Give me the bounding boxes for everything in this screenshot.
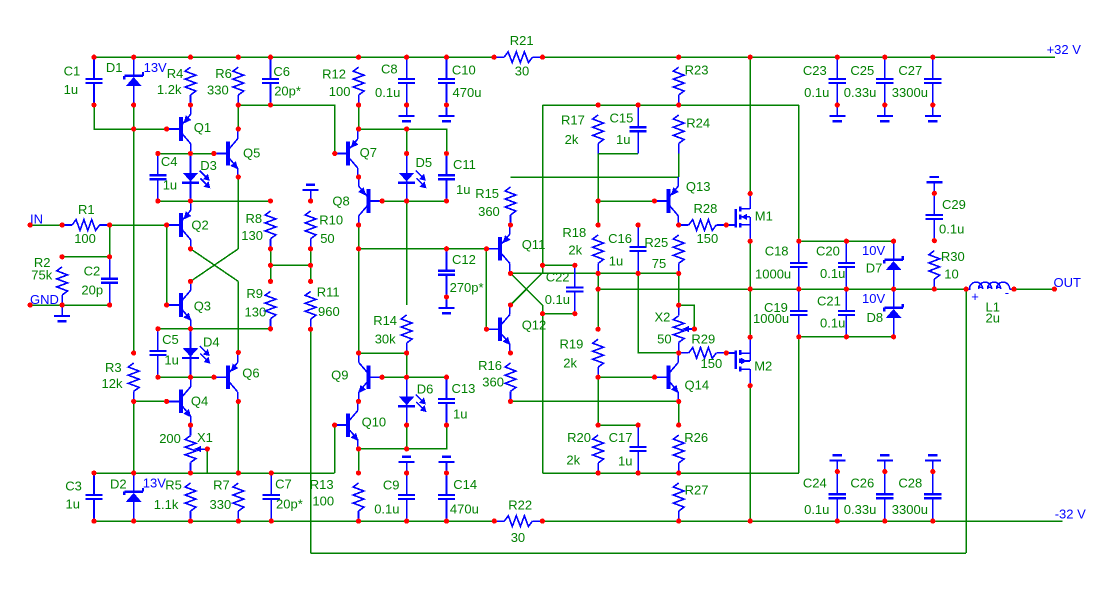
transistor Q12 [486, 305, 546, 353]
junction at 167,129 [164, 126, 169, 131]
svg-text:1u: 1u [164, 353, 178, 368]
resistor R20 [566, 430, 603, 473]
wire Q14e to R26 [678, 401, 680, 425]
wire R3 row to D2 [133, 401, 135, 473]
svg-text:C22: C22 [546, 270, 570, 285]
wire R8 R9 junction [270, 249, 272, 282]
svg-text:C14: C14 [453, 477, 477, 492]
wire M2 drain to -32V [749, 386, 751, 521]
wire row 249 to Q11 base [359, 248, 487, 250]
junction at 190,521 [188, 519, 193, 524]
junction at 679,425 [676, 423, 681, 428]
junction at 510,225 [508, 222, 513, 227]
capacitor C14 [438, 473, 479, 521]
svg-text:C26: C26 [850, 476, 874, 491]
junction at 270,249 [268, 246, 273, 251]
junction at 167,401 [164, 399, 169, 404]
zener diode D1 [106, 57, 167, 105]
resistor R15 [475, 186, 516, 225]
junction at 94,105 [91, 102, 96, 107]
resistor R16 [478, 358, 516, 402]
wire box right upper [798, 105, 800, 241]
svg-text:R25: R25 [644, 235, 668, 250]
svg-text:30: 30 [515, 63, 529, 78]
inductor L1 [966, 282, 1014, 325]
junction at 446,249 [444, 246, 449, 251]
svg-text:Q4: Q4 [191, 393, 208, 408]
svg-text:C5: C5 [162, 332, 179, 347]
port IN [30, 212, 43, 227]
svg-text:1.2k: 1.2k [157, 82, 182, 97]
wire D6 bottom drop [406, 425, 408, 449]
svg-text:D1: D1 [106, 60, 123, 75]
junction at 598,105 [596, 102, 601, 107]
svg-text:Q14: Q14 [685, 378, 710, 393]
junction at 598,201 [596, 198, 601, 203]
junction at 214,154 [211, 151, 216, 156]
ground below C23 [829, 105, 845, 121]
junction at 238,352 [236, 350, 241, 355]
svg-text:C23: C23 [803, 63, 827, 78]
wire Q8c down to Q9c [358, 225, 360, 353]
svg-text:D2: D2 [110, 477, 127, 492]
wire C22 bottom row [543, 313, 575, 315]
junction at 190,473 [188, 470, 193, 475]
resistor R29 [679, 331, 727, 371]
junction at 407,377 [404, 375, 409, 380]
svg-text:C9: C9 [383, 477, 400, 492]
wire Q6c to R7 [237, 401, 239, 473]
svg-text:Q5: Q5 [243, 145, 260, 160]
junction at 837,521 [835, 519, 840, 524]
svg-text:R12: R12 [322, 67, 346, 82]
capacitor C22 [545, 265, 584, 313]
svg-text:3300u: 3300u [892, 502, 928, 517]
capacitor C23 [803, 57, 846, 105]
resistor R5 [154, 477, 196, 521]
junction at 359,57 [356, 55, 361, 60]
junction at 271,473 [269, 470, 274, 475]
svg-text:2k: 2k [566, 453, 580, 468]
junction at 799,289 [796, 287, 801, 292]
ground above C9 [399, 457, 415, 473]
wire diagonal Q3c to Q5e [191, 249, 239, 282]
wire box left upper [542, 105, 544, 265]
junction at 382,377 [380, 375, 385, 380]
wire row 377 Q9b D6 C13 [382, 376, 446, 378]
junction at 679,473 [676, 470, 681, 475]
junction at 30,225 [28, 222, 33, 227]
svg-text:0.1u: 0.1u [374, 502, 399, 517]
LED diode D5 [398, 154, 432, 202]
junction at 1054,289 [1052, 287, 1057, 292]
junction at 359,177 [356, 174, 361, 179]
capacitor C4 [149, 154, 177, 202]
junction at 510,401 [508, 399, 513, 404]
wire feedback bottom row [311, 552, 967, 554]
svg-text:470u: 470u [450, 502, 479, 517]
wire R3 to Q4 base [134, 400, 167, 402]
junction at 575,314 [572, 311, 577, 316]
junction at 885,105 [882, 102, 887, 107]
wire R11 to feedback [310, 329, 312, 553]
svg-text:C25: C25 [850, 63, 874, 78]
svg-text:10: 10 [944, 267, 958, 282]
resistor R11 [305, 285, 340, 330]
wire row 201 to Q13 base [598, 200, 654, 202]
svg-text:D8: D8 [867, 310, 884, 325]
svg-text:270p*: 270p* [450, 280, 484, 295]
resistor R21 [494, 33, 542, 78]
junction at 190,57 [188, 55, 193, 60]
junction at 238,401 [236, 399, 241, 404]
junction at 446,105 [444, 102, 449, 107]
transistor Q14 [655, 353, 709, 401]
junction at 694,329 [692, 326, 697, 331]
junction at 359,105 [356, 102, 361, 107]
svg-text:C3: C3 [65, 479, 82, 494]
wire C6 row to Q7 base [238, 105, 334, 154]
capacitor C18 [755, 241, 807, 289]
svg-text:GND: GND [30, 292, 59, 307]
svg-text:R15: R15 [475, 186, 499, 201]
junction at 62,225 [60, 222, 65, 227]
junction at 885,521 [882, 519, 887, 524]
junction at 407,57 [404, 55, 409, 60]
junction at 486,329 [484, 327, 489, 332]
wire row 273 Q11c R18 C16 R25 [511, 272, 679, 274]
svg-text:1u: 1u [609, 253, 623, 268]
junction at 542,521 [540, 519, 545, 524]
wire NFB row 473 [94, 472, 335, 474]
junction at 62,305 [60, 302, 65, 307]
LED diode D4 [182, 329, 220, 377]
svg-text:Q9: Q9 [331, 368, 348, 383]
junction at 407,449 [404, 446, 409, 451]
junction at 94,473 [91, 470, 96, 475]
svg-text:50: 50 [657, 331, 671, 346]
wire Q5 emitter column [237, 177, 239, 249]
ground below C27 [925, 105, 941, 121]
wire floating top rail row 105 [543, 104, 799, 106]
junction at 238,177 [236, 174, 241, 179]
junction at 238,129 [236, 126, 241, 131]
capacitor C29 [926, 193, 966, 240]
junction at 598,273 [596, 271, 601, 276]
junction at 679,225 [676, 222, 681, 227]
junction at 190,329 [188, 326, 193, 331]
transistor Q6 [214, 353, 260, 401]
svg-text:Q2: Q2 [191, 218, 208, 233]
wire row 153 Q1c D3 Q5b [158, 153, 214, 155]
junction at 407,154 [404, 151, 409, 156]
svg-text:75k: 75k [31, 268, 52, 283]
svg-text:Q1: Q1 [194, 120, 211, 135]
svg-text:2u: 2u [986, 310, 1000, 325]
wire C16 tail to X2 bottom [638, 273, 679, 353]
svg-text:C21: C21 [817, 294, 841, 309]
wire M1 source to M2 source [749, 241, 751, 337]
junction at 238,57 [236, 55, 241, 60]
junction at 446,521 [444, 519, 449, 524]
trimmer X2 [655, 305, 696, 353]
junction at 270,57 [268, 55, 273, 60]
svg-text:R8: R8 [246, 211, 263, 226]
svg-text:10V: 10V [862, 243, 885, 258]
wire Q10e to R13 [358, 449, 360, 473]
junction at 750,337 [748, 335, 753, 340]
resistor R28 [679, 201, 727, 246]
capacitor C20 [816, 241, 855, 289]
junction at 311,201 [308, 198, 313, 203]
wire D5 top drop [406, 129, 408, 154]
junction at 837,472 [835, 469, 840, 474]
svg-text:R4: R4 [167, 66, 184, 81]
junction at 158,377 [155, 375, 160, 380]
junction at 726,225 [724, 222, 729, 227]
trimmer X1 [159, 425, 213, 473]
junction at 486,249 [484, 246, 489, 251]
svg-text:0.1u: 0.1u [820, 266, 845, 281]
svg-text:1u: 1u [618, 453, 632, 468]
transistor Q11 [486, 225, 545, 273]
resistor R27 [673, 483, 708, 521]
capacitor C16 [608, 225, 647, 273]
junction at 598,329 [596, 327, 601, 332]
junction at 62,257 [60, 254, 65, 259]
svg-text:C13: C13 [452, 381, 476, 396]
svg-text:330: 330 [210, 497, 232, 512]
junction at 799,337 [796, 334, 801, 339]
junction at 207,449 [205, 446, 210, 451]
wire row 201 C4 D3 R8 [158, 200, 271, 202]
svg-text:+: + [971, 289, 979, 304]
transistor Q1 [167, 105, 211, 153]
wire X2 wiper loop [679, 305, 695, 329]
wire row 177 R15 to Q13e [511, 176, 679, 178]
wire IN to R1 [30, 224, 62, 226]
capacitor C11 [438, 154, 476, 202]
net label -32 V [1055, 507, 1086, 522]
svg-text:R19: R19 [560, 337, 584, 352]
junction at 94,57 [91, 55, 96, 60]
junction at 679,273 [676, 271, 681, 276]
junction at 446,201 [444, 198, 449, 203]
junction at 726,353 [724, 350, 729, 355]
junction at 494,57 [492, 55, 497, 60]
svg-text:C11: C11 [453, 157, 476, 172]
transistor Q5 [214, 130, 260, 178]
junction at 638,105 [636, 102, 641, 107]
junction at 933,472 [930, 469, 935, 474]
svg-text:0.1u: 0.1u [820, 316, 845, 331]
svg-text:330: 330 [207, 83, 229, 98]
svg-text:130: 130 [245, 305, 267, 320]
wire row 449 [359, 425, 447, 449]
svg-text:20p*: 20p* [274, 83, 301, 98]
capacitor C15 [610, 105, 647, 154]
junction at 110,257 [107, 254, 112, 259]
svg-text:0.33u: 0.33u [844, 85, 877, 100]
transistor Q3 [167, 281, 211, 329]
junction at 510,353 [508, 350, 513, 355]
zener diode D2 [110, 473, 166, 521]
junction at 358,401 [356, 399, 361, 404]
svg-text:200: 200 [159, 431, 181, 446]
junction at 134,129 [131, 126, 136, 131]
svg-text:OUT: OUT [1054, 275, 1082, 290]
svg-text:X2: X2 [655, 309, 671, 324]
svg-text:Q6: Q6 [242, 365, 259, 380]
wire D5 to R14 [406, 201, 408, 305]
junction at 894,337 [891, 334, 896, 339]
ground below C12 [439, 297, 455, 313]
svg-text:R26: R26 [684, 430, 708, 445]
junction at 446,377 [444, 375, 449, 380]
svg-text:C12: C12 [452, 252, 476, 267]
svg-text:C24: C24 [803, 476, 827, 491]
junction at 542,314 [540, 311, 545, 316]
junction at 270,281 [268, 279, 273, 284]
junction at 679,401 [676, 399, 681, 404]
junction at 837,57 [835, 55, 840, 60]
junction at 311,329 [308, 327, 313, 332]
capacitor C19 [753, 289, 807, 337]
junction at 190,154 [188, 151, 193, 156]
wire row 425 R20 C17 [598, 424, 638, 426]
resistor R30 [929, 249, 965, 289]
resistor R3 [102, 360, 140, 402]
ground above C24 [829, 455, 845, 471]
svg-text:D3: D3 [200, 158, 217, 173]
junction at 190,105 [188, 102, 193, 107]
junction at 238,521 [236, 519, 241, 524]
wire D1 column down to R3 [133, 105, 135, 353]
svg-text:C2: C2 [84, 263, 101, 278]
svg-text:C15: C15 [610, 110, 634, 125]
svg-text:2k: 2k [563, 355, 577, 370]
svg-text:0.1u: 0.1u [804, 85, 829, 100]
svg-text:R29: R29 [691, 331, 715, 346]
svg-text:30: 30 [511, 530, 525, 545]
svg-text:1u: 1u [453, 407, 467, 422]
wire +32V rail left [94, 56, 494, 58]
svg-text:C27: C27 [898, 63, 922, 78]
svg-text:-: - [1005, 285, 1009, 300]
svg-text:R24: R24 [686, 115, 710, 130]
junction at 598,425 [596, 423, 601, 428]
junction at 190,377 [188, 375, 193, 380]
transistor Q4 [167, 377, 208, 425]
svg-text:R11: R11 [317, 285, 340, 300]
svg-text:20p*: 20p* [276, 497, 303, 512]
resistor R9 [245, 286, 276, 329]
svg-text:-32 V: -32 V [1055, 507, 1086, 522]
ground above C14 [439, 457, 455, 473]
wire box right lower [798, 337, 800, 473]
wire output row right of L1 [1014, 288, 1054, 290]
svg-text:M1: M1 [755, 208, 773, 223]
svg-text:75: 75 [652, 256, 666, 271]
capacitor C2 [81, 257, 118, 305]
junction at 407,353 [404, 350, 409, 355]
resistor R17 [561, 112, 604, 153]
junction at 679,305 [676, 303, 681, 308]
junction at 270,105 [268, 102, 273, 107]
junction at 750,386 [748, 383, 753, 388]
resistor R26 [673, 430, 708, 473]
resistor R2 [31, 255, 67, 305]
junction at 167,225 [164, 222, 169, 227]
svg-text:R13: R13 [310, 477, 334, 492]
wire row 377 C5 D4 Q6b [158, 376, 214, 378]
junction at 894,289 [891, 287, 896, 292]
net label +32 V [1047, 42, 1082, 57]
wire Q10 base drop [334, 425, 336, 473]
svg-text:0.33u: 0.33u [844, 502, 877, 517]
wire row 353 Q9c R14 [359, 352, 407, 354]
junction at 966,289 [964, 287, 969, 292]
junction at 134,353 [131, 350, 136, 355]
svg-text:1u: 1u [163, 178, 177, 193]
wire Q6 emitter column [237, 281, 239, 352]
wire C1 to Q1 base [94, 105, 167, 129]
junction at 94,521 [91, 519, 96, 524]
wire box left lower [542, 314, 544, 473]
transistor Q8 [332, 177, 382, 225]
junction at 238,105 [236, 102, 241, 107]
junction at 190,201 [188, 198, 193, 203]
junction at 510,273 [508, 271, 513, 276]
junction at 750,289 [748, 287, 753, 292]
junction at 110,305 [107, 302, 112, 307]
svg-text:C28: C28 [898, 476, 922, 491]
svg-text:0.1u: 0.1u [804, 502, 829, 517]
junction at 894,241 [891, 239, 896, 244]
junction at 311,281 [308, 279, 313, 284]
svg-text:3300u: 3300u [892, 85, 928, 100]
resistor R14 [373, 313, 412, 353]
junction at 190,281 [188, 279, 193, 284]
svg-text:D7: D7 [866, 261, 883, 276]
wire row 129 to C11 [359, 129, 447, 154]
wire feedback up to OUT [965, 289, 967, 553]
ground below C25 [877, 105, 893, 121]
junction at 158,154 [155, 151, 160, 156]
svg-text:R6: R6 [215, 66, 232, 81]
MOSFET M1 [726, 194, 773, 241]
wire row 377 to Q14 base [598, 376, 654, 378]
resistor R19 [560, 337, 604, 378]
junction at 407,201 [404, 198, 409, 203]
junction at 934,193 [932, 191, 937, 196]
junction at 750,521 [748, 519, 753, 524]
junction at 654,201 [652, 198, 657, 203]
junction at 542,265 [540, 263, 545, 268]
ground above C26 [877, 455, 893, 471]
svg-text:470u: 470u [453, 85, 482, 100]
wire C22 top row [543, 264, 575, 266]
svg-text:C7: C7 [275, 477, 292, 492]
junction at 214,377 [211, 375, 216, 380]
junction at 446,57 [444, 55, 449, 60]
junction at 167,305 [164, 302, 169, 307]
junction at 846,337 [844, 334, 849, 339]
svg-text:960: 960 [318, 304, 340, 319]
svg-text:R23: R23 [685, 62, 709, 77]
wire R1 to Q2 base [110, 224, 167, 226]
port GND [30, 292, 59, 307]
